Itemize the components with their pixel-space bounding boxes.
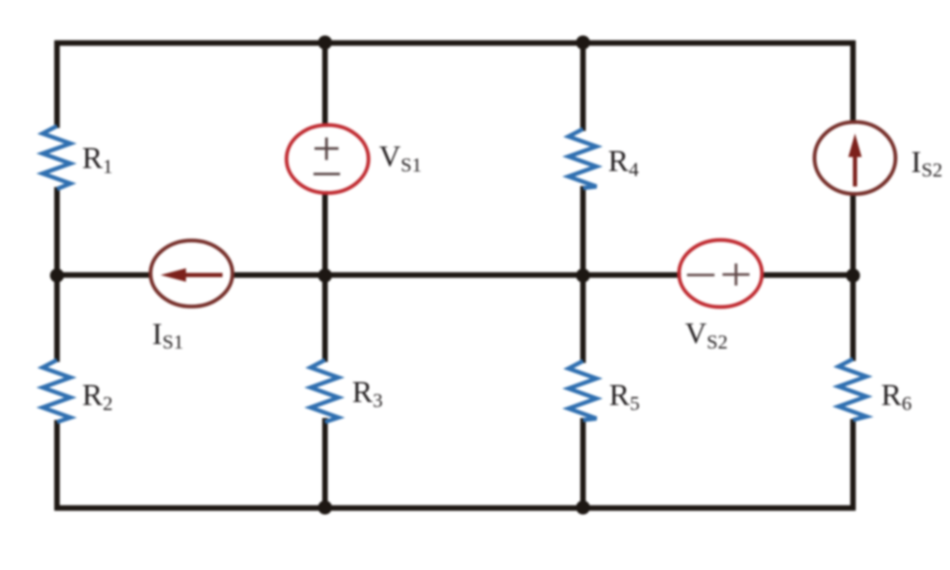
svg-text:R6: R6 (881, 377, 912, 415)
voltage source VS1 minus sign (314, 173, 341, 176)
resistor R4 (569, 129, 597, 188)
svg-text:IS1: IS1 (152, 316, 183, 354)
resistor R3 (311, 360, 339, 422)
voltage source VS1 circle (287, 125, 369, 193)
resistor R2 (43, 360, 71, 422)
wire branch C lower (x=583) (580, 418, 586, 508)
wire middle horizontal right of VS2 (761, 272, 853, 278)
wire left middle segment (54, 187, 60, 362)
svg-text:VS1: VS1 (379, 140, 422, 177)
svg-text:R3: R3 (352, 374, 383, 412)
svg-text:R4: R4 (608, 143, 639, 181)
resistor R5 (569, 361, 597, 420)
node bottom-right junction (576, 501, 590, 515)
current source IS2 circle (815, 122, 896, 194)
wire left upper segment (54, 41, 60, 129)
wire branch C middle (x=583) (580, 186, 586, 363)
svg-text:IS2: IS2 (911, 144, 942, 182)
wire branch B lower (x=325) (322, 418, 328, 508)
node B (middle wire x=325) (318, 269, 332, 283)
wire branch C upper (x=583) (580, 43, 586, 131)
node A (left middle) (50, 269, 64, 283)
voltage source VS1 plus sign (315, 138, 339, 161)
wire middle horizontal IS1 to VS2 (231, 272, 681, 278)
current source IS2 arrow (853, 153, 857, 187)
wire right lower segment (850, 419, 856, 511)
svg-text:R5: R5 (609, 377, 640, 415)
wire left lower segment (54, 420, 60, 511)
voltage source VS2 plus sign (723, 264, 750, 286)
svg-text:R2: R2 (82, 377, 113, 415)
svg-text:R1: R1 (82, 140, 113, 178)
wire middle horizontal left of IS1 (57, 272, 152, 278)
svg-text:VS2: VS2 (685, 317, 728, 354)
wire branch B middle (x=325) (322, 191, 328, 362)
wire right upper segment (850, 41, 856, 125)
wire top horizontal (55, 40, 856, 46)
voltage source VS2 minus sign (687, 274, 715, 277)
resistor R6 (839, 359, 867, 420)
node C (middle wire x=583) (576, 269, 590, 283)
resistor R1 (43, 126, 71, 189)
current source IS1 circle (151, 241, 233, 307)
current source IS1 arrow (184, 273, 223, 277)
node top-right junction (576, 36, 590, 50)
wire right middle segment (850, 192, 856, 361)
node D (right middle) (846, 269, 860, 283)
voltage source VS2 circle (679, 240, 762, 307)
node top-left junction (318, 36, 332, 50)
wire bottom horizontal (55, 505, 856, 511)
node bottom-left junction (318, 501, 332, 515)
wire branch B upper (x=325) (322, 43, 328, 127)
